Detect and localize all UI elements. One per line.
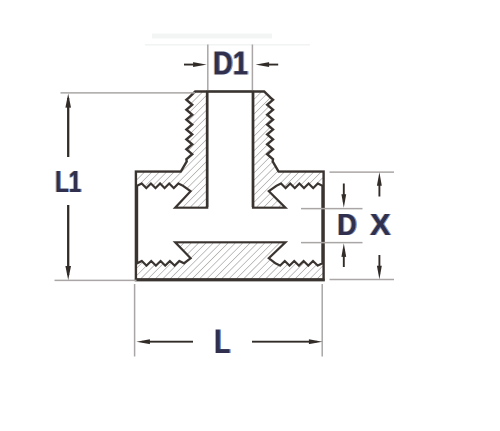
svg-text:L: L bbox=[214, 323, 230, 361]
svg-text:X: X bbox=[370, 207, 391, 242]
svg-text:L1: L1 bbox=[55, 164, 81, 199]
svg-text:D1: D1 bbox=[213, 45, 248, 82]
svg-text:D: D bbox=[337, 207, 357, 242]
